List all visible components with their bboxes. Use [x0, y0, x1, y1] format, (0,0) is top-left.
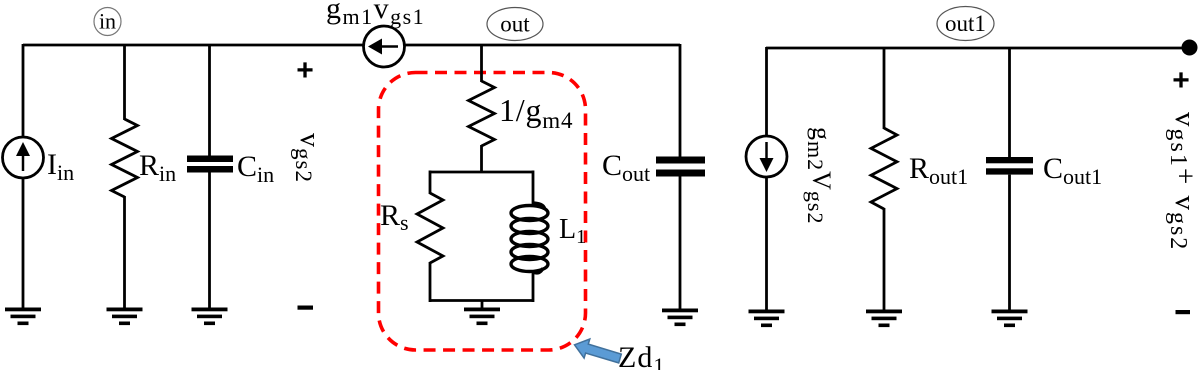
- current source gm1vgs1: [364, 26, 405, 67]
- wire Iin branch lower: [22, 178, 25, 309]
- wire top-right horizontal: [766, 47, 1190, 50]
- wire Iin branch upper: [22, 44, 25, 137]
- ground (Rin): [107, 308, 143, 326]
- svg-text:out1: out1: [945, 11, 986, 36]
- wire Cin branch upper: [208, 44, 211, 157]
- ground (Rout1): [866, 310, 902, 328]
- wire Cout1 branch lower: [1008, 175, 1011, 311]
- wire L1 stub upper: [532, 171, 535, 206]
- node out: [487, 8, 543, 41]
- wire out node drop: [480, 45, 483, 82]
- ground (gm2): [749, 310, 785, 328]
- wire parallel block top bar: [430, 171, 533, 174]
- ground (Cout1): [992, 310, 1028, 328]
- resistor Rin: [112, 119, 138, 197]
- ground (Cin): [192, 308, 228, 326]
- svg-text:out: out: [500, 12, 530, 37]
- resistor Rs: [417, 193, 443, 263]
- node in: [94, 8, 121, 36]
- wire Rin branch lower: [123, 196, 126, 309]
- svg-text:gm1vgs1: gm1vgs1: [326, 0, 425, 29]
- wire gm2 branch upper: [765, 47, 768, 137]
- wire gm2 branch lower: [765, 177, 768, 311]
- resistor Rout1: [871, 128, 897, 209]
- ground (Rs L1): [464, 308, 500, 326]
- svg-text:+: +: [296, 54, 314, 87]
- wire Rout1 branch lower: [883, 208, 886, 311]
- wire top-left horizontal: [23, 44, 680, 47]
- ground (Cout): [662, 309, 698, 327]
- wire L1 stub lower: [532, 271, 535, 302]
- svg-text:+: +: [1172, 64, 1190, 97]
- svg-text:in: in: [99, 9, 116, 34]
- arrow callout to Zd1: [575, 339, 622, 363]
- minus sign (vgs2): [298, 306, 314, 310]
- wire 1/gm4 to parallel block: [480, 145, 483, 173]
- node out1: [937, 7, 994, 41]
- wire ground stem (Rs L1): [481, 301, 484, 310]
- wire Rs stub upper: [429, 171, 432, 195]
- wire Rs stub lower: [429, 262, 432, 302]
- capacitor Cin: [187, 156, 233, 173]
- inductor L1: [511, 203, 548, 273]
- current source Iin: [3, 137, 44, 178]
- current source gm2vgs2: [746, 136, 787, 177]
- wire parallel block bottom bar: [430, 299, 533, 302]
- ground (Iin): [5, 308, 41, 326]
- wire Cin branch lower: [208, 173, 211, 310]
- wire Cout branch lower: [679, 176, 682, 310]
- capacitor Cout: [656, 157, 705, 177]
- wire Cout1 branch upper: [1008, 47, 1011, 158]
- node dot right end: [1182, 40, 1198, 56]
- wire Rin branch upper: [123, 44, 126, 120]
- minus sign (vgs1+vgs2): [1176, 310, 1191, 314]
- capacitor Cout1: [986, 157, 1033, 175]
- red dashed box Zd1: [379, 73, 586, 351]
- wire Rout1 branch upper: [883, 47, 886, 129]
- wire Cout branch upper: [679, 44, 682, 157]
- resistor 1/gm4: [469, 81, 495, 146]
